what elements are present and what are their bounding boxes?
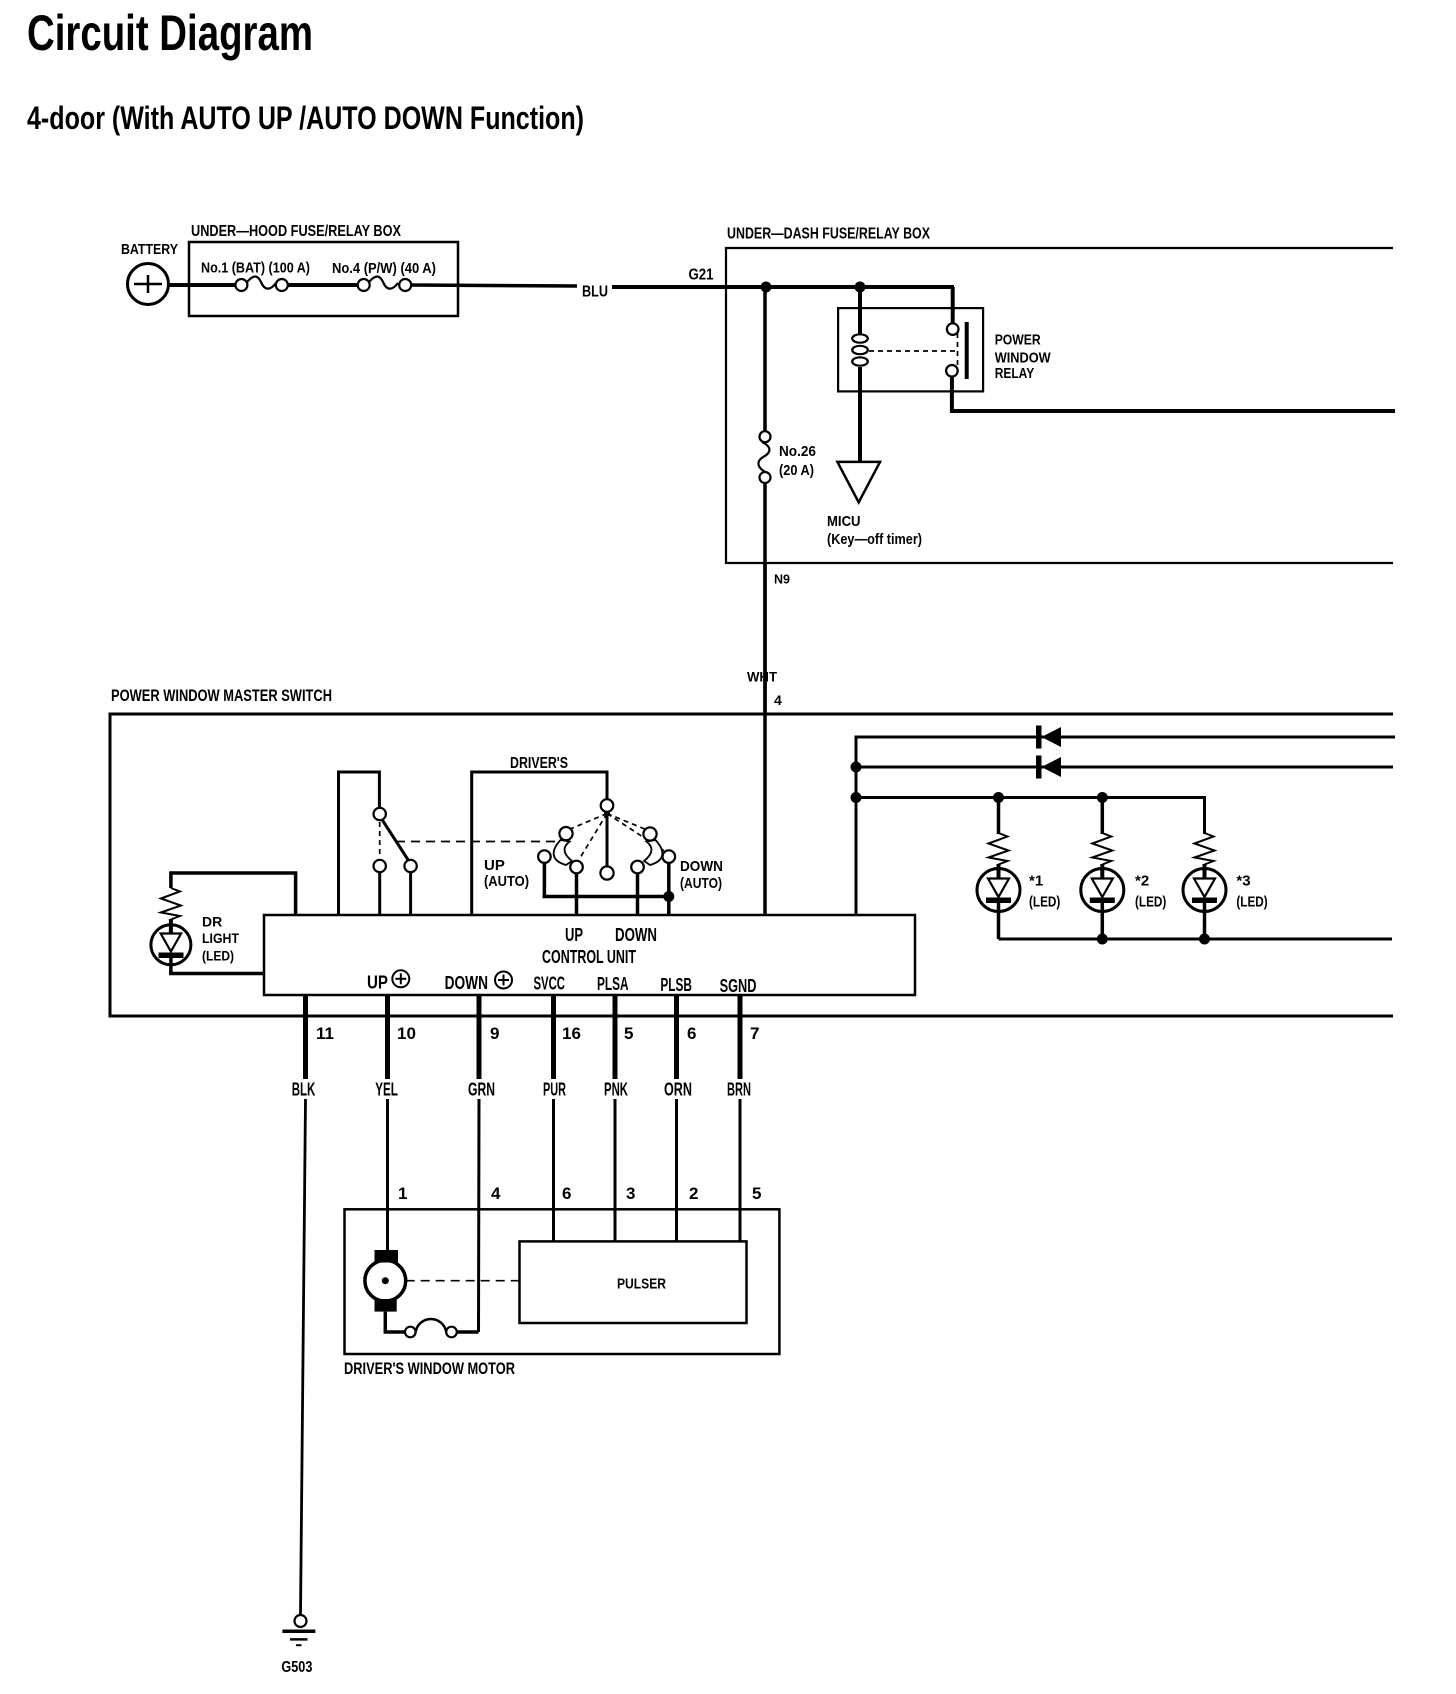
svg-text:DOWN: DOWN — [445, 973, 488, 993]
svg-text:9: 9 — [490, 1024, 499, 1043]
svg-text:No.26: No.26 — [779, 443, 816, 460]
svg-text:PNK: PNK — [604, 1080, 628, 1100]
svg-text:G503: G503 — [281, 1659, 312, 1676]
svg-text:RELAY: RELAY — [995, 365, 1034, 382]
svg-text:DRIVER'S: DRIVER'S — [510, 755, 568, 772]
svg-text:4: 4 — [491, 1184, 501, 1203]
svg-text:*2: *2 — [1135, 873, 1149, 890]
svg-text:PULSER: PULSER — [617, 1276, 666, 1293]
svg-text:CONTROL UNIT: CONTROL UNIT — [542, 947, 636, 967]
svg-text:DOWN: DOWN — [680, 858, 723, 875]
svg-text:*1: *1 — [1029, 873, 1043, 890]
svg-text:(LED): (LED) — [202, 947, 234, 963]
svg-text:No.4 (P/W) (40 A): No.4 (P/W) (40 A) — [332, 260, 436, 277]
svg-text:PLSA: PLSA — [597, 974, 629, 994]
svg-text:(20 A): (20 A) — [779, 462, 814, 479]
svg-text:DR: DR — [202, 914, 222, 930]
svg-text:11: 11 — [316, 1024, 334, 1043]
svg-text:SGND: SGND — [720, 976, 757, 996]
svg-text:BATTERY: BATTERY — [121, 241, 178, 258]
svg-text:GRN: GRN — [468, 1080, 495, 1100]
svg-text:YEL: YEL — [375, 1080, 398, 1100]
svg-text:MICU: MICU — [827, 513, 861, 530]
svg-text:ORN: ORN — [664, 1080, 692, 1100]
svg-text:BLK: BLK — [292, 1080, 316, 1100]
svg-text:6: 6 — [562, 1184, 571, 1203]
svg-text:WHT: WHT — [747, 669, 777, 685]
svg-text:UNDER—HOOD FUSE/RELAY BOX: UNDER—HOOD FUSE/RELAY BOX — [191, 223, 401, 240]
svg-text:16: 16 — [562, 1024, 581, 1043]
svg-text:Circuit Diagram: Circuit Diagram — [27, 5, 313, 61]
svg-text:BRN: BRN — [727, 1080, 751, 1100]
svg-text:LIGHT: LIGHT — [202, 930, 239, 946]
svg-text:UNDER—DASH FUSE/RELAY BOX: UNDER—DASH FUSE/RELAY BOX — [727, 226, 930, 243]
svg-text:3: 3 — [626, 1184, 635, 1203]
svg-text:PLSB: PLSB — [660, 975, 692, 995]
svg-text:2: 2 — [689, 1184, 698, 1203]
svg-text:(AUTO): (AUTO) — [680, 875, 722, 892]
svg-text:UP: UP — [367, 973, 388, 993]
svg-text:(LED): (LED) — [1135, 894, 1166, 911]
svg-text:5: 5 — [752, 1184, 761, 1203]
svg-text:WINDOW: WINDOW — [995, 350, 1052, 367]
svg-text:(LED): (LED) — [1029, 894, 1060, 911]
svg-text:1: 1 — [398, 1184, 407, 1203]
svg-text:UP: UP — [484, 857, 505, 874]
svg-text:4-door (With AUTO UP /AUTO DOW: 4-door (With AUTO UP /AUTO DOWN Function… — [27, 100, 584, 136]
svg-text:SVCC: SVCC — [534, 974, 566, 994]
svg-text:POWER WINDOW MASTER SWITCH: POWER WINDOW MASTER SWITCH — [111, 687, 332, 705]
svg-text:DRIVER'S WINDOW MOTOR: DRIVER'S WINDOW MOTOR — [344, 1360, 515, 1378]
svg-text:10: 10 — [397, 1024, 416, 1043]
svg-text:6: 6 — [687, 1024, 696, 1043]
svg-text:5: 5 — [624, 1024, 633, 1043]
svg-text:(LED): (LED) — [1236, 894, 1267, 911]
svg-text:BLU: BLU — [582, 284, 608, 301]
svg-text:UP: UP — [565, 925, 583, 945]
svg-text:G21: G21 — [689, 267, 714, 284]
svg-text:*3: *3 — [1236, 873, 1250, 890]
svg-text:(Key—off timer): (Key—off timer) — [827, 531, 922, 548]
svg-text:N9: N9 — [774, 572, 790, 587]
svg-text:4: 4 — [774, 692, 782, 708]
svg-text:No.1 (BAT) (100 A): No.1 (BAT) (100 A) — [201, 260, 310, 277]
svg-text:DOWN: DOWN — [615, 925, 657, 945]
svg-text:(AUTO): (AUTO) — [484, 873, 529, 890]
svg-text:PUR: PUR — [543, 1080, 566, 1100]
svg-text:POWER: POWER — [995, 331, 1041, 348]
svg-text:7: 7 — [750, 1024, 759, 1043]
